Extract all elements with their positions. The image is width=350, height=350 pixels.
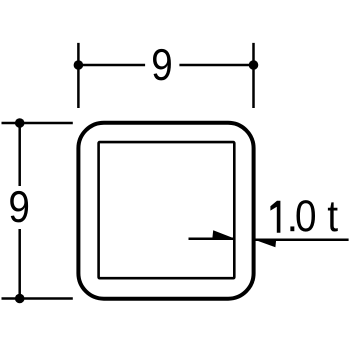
left dimension dot top: [15, 118, 25, 128]
left dimension line bottom segment: [18, 229, 21, 299]
outer tube wall: [78, 123, 253, 299]
label 0 of wall thickness value: [297, 200, 316, 232]
top dimension line right segment: [179, 64, 253, 67]
label . of wall thickness value: [290, 226, 294, 231]
extension line right of top dimension: [252, 43, 255, 108]
label 1 of wall thickness value: [270, 201, 280, 233]
extension line top of left dimension: [2, 122, 73, 125]
top dimension dot left: [74, 60, 84, 70]
thickness leader line inner (points right at inner wall): [189, 237, 234, 240]
left dimension line top segment: [18, 123, 21, 186]
top dimension dot right: [249, 60, 259, 70]
inner tube wall: [99, 142, 235, 278]
top dimension line left segment: [78, 64, 145, 67]
label 9 (left height): [10, 191, 28, 223]
arrowhead at outer wall: [255, 239, 276, 247]
left dimension dot bottom: [15, 294, 25, 304]
label 9 (top width): [153, 49, 171, 81]
extension line left of top dimension: [77, 43, 80, 108]
thickness leader line outer (points left at outer wall): [255, 238, 348, 241]
arrowhead at inner wall: [212, 230, 234, 239]
label t of wall thickness value: [328, 202, 338, 231]
extension line bottom of left dimension: [2, 297, 73, 300]
